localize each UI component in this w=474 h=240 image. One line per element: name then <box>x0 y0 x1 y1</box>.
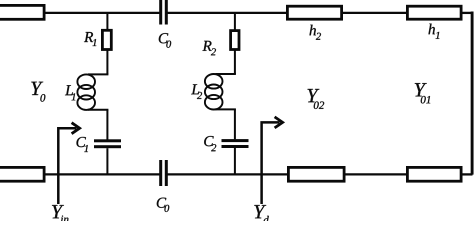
wire top segment: left box to C0 <box>45 12 160 14</box>
value label L2 <box>191 84 202 99</box>
wire right vertical edge <box>471 12 474 175</box>
net label Yd <box>254 205 268 224</box>
transmission line box h2 (top) <box>287 6 341 19</box>
wire branch1 L1 top jog <box>88 73 108 75</box>
value label h2 <box>310 25 321 40</box>
wire branch2 L2 to C2 <box>234 109 236 139</box>
resistor R2 <box>231 31 239 50</box>
wire branch2 top node to R2 <box>234 13 236 30</box>
resistor R1 <box>102 30 111 49</box>
wire top segment: h1 to right edge <box>461 12 473 14</box>
wire branch1 L1 bottom jog <box>88 109 108 111</box>
value label h1 <box>429 24 440 39</box>
value label C2 <box>204 136 216 151</box>
inductor L2 (coil of 3 loops) <box>205 74 223 109</box>
arrow Yin (input admittance looking right) <box>58 123 79 204</box>
capacitor C0 top (series, vertical plates) <box>159 0 168 25</box>
wire branch1 R1 to L1 <box>106 50 108 74</box>
net label Yin <box>52 205 68 223</box>
wire branch1 C1 to bottom wire junction <box>106 148 108 175</box>
value label C1 <box>77 137 88 152</box>
wire branch2 C2 to bottom wire junction <box>234 148 236 175</box>
transmission line box h1 (top) <box>407 6 461 19</box>
transmission line box bottom-left (input line return) <box>0 167 44 181</box>
capacitor C0 bottom (series, vertical plates) <box>159 160 168 186</box>
wire branch1 L1 to C1 <box>106 110 108 140</box>
wire bottom segment: bottom box 1 to bottom box 2 <box>344 173 408 175</box>
value label R1 <box>84 32 96 46</box>
wire bottom segment: left box to C0 <box>45 173 160 175</box>
transmission line box top-left (input line) <box>0 5 44 19</box>
wire top segment: h2 to h1 <box>342 12 408 14</box>
inductor L1 (coil of 3 loops) <box>77 74 95 110</box>
wire branch1 top node to R1 <box>106 13 108 30</box>
net label Y02 (line admittance) <box>308 89 325 109</box>
wire branch2 L2 top jog <box>216 73 236 75</box>
capacitor C2 (shunt, horizontal plates) <box>222 139 249 148</box>
value label C0 bottom <box>157 198 169 212</box>
wire bottom segment: right edge to bottom box 2 <box>461 173 473 175</box>
wire branch2 R2 to L2 <box>234 50 236 74</box>
arrow Yd (admittance looking right at node d) <box>262 117 283 204</box>
net label Y0 (line admittance) <box>31 82 45 102</box>
net label Y01 (line admittance) <box>415 83 430 103</box>
capacitor C1 (shunt, horizontal plates) <box>94 139 121 148</box>
transmission line box bottom-1 (below h2) <box>288 167 344 181</box>
value label R2 <box>203 41 216 55</box>
value label C0 top <box>159 33 171 48</box>
value label L1 <box>65 85 75 100</box>
wire top segment: C0 to h2 <box>167 12 288 14</box>
wire bottom segment: C0 to bottom box 1 <box>167 173 289 175</box>
wire branch2 L2 bottom jog <box>216 108 236 110</box>
transmission line box bottom-2 (below h1) <box>407 167 461 181</box>
